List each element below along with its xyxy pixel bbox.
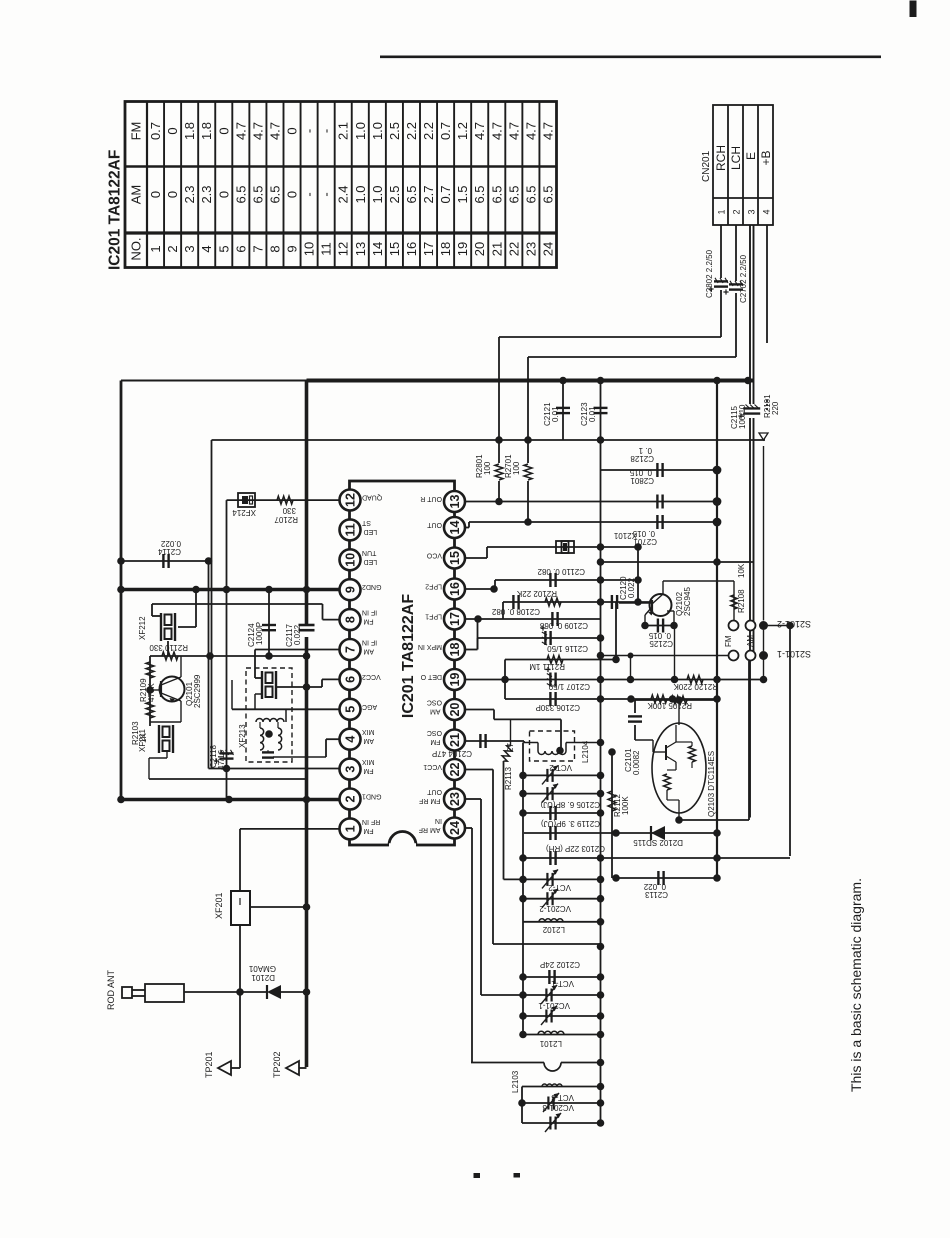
svg-text:AM: AM [363,648,374,655]
svg-text:-: - [319,129,334,133]
svg-text:TP201: TP201 [204,1051,214,1078]
svg-text:0.7: 0.7 [148,122,163,140]
svg-text:2.3: 2.3 [182,185,197,203]
svg-text:6.5: 6.5 [506,185,521,203]
svg-text:12: 12 [344,493,358,507]
svg-text:1.0: 1.0 [370,185,385,203]
svg-text:IC201 TA8122AF: IC201 TA8122AF [400,594,417,718]
svg-text:24: 24 [448,821,462,835]
svg-text:FM: FM [363,767,373,774]
svg-text:330: 330 [282,506,296,515]
svg-text:C2114: C2114 [157,547,181,556]
svg-text:R2107: R2107 [274,515,298,524]
svg-text:2: 2 [165,245,180,252]
svg-text:6.5: 6.5 [472,185,487,203]
svg-text:AM: AM [129,185,144,205]
svg-text:OSC: OSC [427,729,442,736]
svg-text:2.1: 2.1 [336,122,351,140]
svg-text:R2102 22K: R2102 22K [516,589,557,598]
svg-text:1.0: 1.0 [353,185,368,203]
svg-text:0.7: 0.7 [438,122,453,140]
svg-text:4: 4 [762,209,772,214]
svg-text:4.7: 4.7 [489,122,504,140]
svg-text:LED: LED [364,558,378,565]
svg-text:FM RF: FM RF [419,797,440,804]
svg-text:GMA01: GMA01 [248,964,276,973]
svg-text:6.5: 6.5 [233,185,248,203]
svg-text:5: 5 [216,245,231,252]
svg-text:C2113: C2113 [644,890,668,899]
svg-text:15: 15 [448,551,462,565]
svg-text:6: 6 [344,676,358,683]
svg-text:22: 22 [448,763,462,777]
svg-text:Q2103 DTC114ES: Q2103 DTC114ES [707,751,716,817]
svg-text:2SC945: 2SC945 [683,587,692,616]
svg-text:XF212: XF212 [138,616,147,640]
svg-text:R2120 220K: R2120 220K [673,682,718,691]
svg-text:0: 0 [285,127,300,134]
svg-text:ROD ANT: ROD ANT [106,969,116,1010]
svg-text:FM: FM [363,827,373,834]
svg-text:1.2: 1.2 [455,122,470,140]
svg-text:2SC2999: 2SC2999 [193,674,202,708]
svg-text:15: 15 [387,242,402,256]
svg-text:LED: LED [364,528,378,535]
svg-text:13: 13 [353,242,368,256]
svg-text:C2104 47P: C2104 47P [432,749,472,758]
svg-text:4.7: 4.7 [250,122,265,140]
svg-text:OUT: OUT [427,788,443,795]
svg-text:16: 16 [404,242,419,256]
svg-text:0. 015: 0. 015 [629,468,652,477]
svg-text:FM: FM [363,618,373,625]
svg-text:RF IN: RF IN [362,818,380,825]
svg-text:6.5: 6.5 [489,185,504,203]
svg-text:TP202: TP202 [272,1051,282,1078]
svg-text:VCT-1: VCT-1 [551,979,574,988]
svg-text:MIX: MIX [362,758,375,765]
svg-text:2.4: 2.4 [336,185,351,203]
svg-text:4: 4 [344,736,358,743]
svg-text:TUN: TUN [362,549,376,556]
svg-text:C2109 0. 068: C2109 0. 068 [539,621,588,630]
svg-text:D2102 SD115: D2102 SD115 [633,838,683,847]
svg-text:100: 100 [512,461,521,475]
svg-text:-: - [302,129,317,133]
svg-text:100K: 100K [621,796,630,815]
svg-text:2.3: 2.3 [199,185,214,203]
svg-text:C2106 330P: C2106 330P [536,703,580,712]
svg-text:CN201: CN201 [701,150,712,182]
svg-text:0. 015: 0. 015 [648,631,671,640]
svg-text:DET O: DET O [420,673,442,680]
svg-text:0.022: 0.022 [160,539,181,548]
svg-text:2.2: 2.2 [404,122,419,140]
svg-text:2.5: 2.5 [387,122,402,140]
svg-text:3: 3 [182,245,197,252]
svg-text:19: 19 [448,673,462,687]
svg-text:L2102: L2102 [542,925,565,934]
svg-text:OUT R: OUT R [420,495,442,502]
svg-text:12: 12 [336,242,351,256]
svg-text:23: 23 [523,242,538,256]
svg-text:7: 7 [250,245,265,252]
svg-text:10: 10 [302,242,317,256]
svg-text:XF213: XF213 [238,724,247,748]
svg-text:VC201-1: VC201-1 [538,1001,570,1010]
svg-text:AM: AM [363,737,374,744]
svg-text:47/16: 47/16 [217,749,226,770]
svg-text:IC201 TA8122AF: IC201 TA8122AF [107,150,124,270]
svg-text:9: 9 [344,586,358,593]
svg-text:S2101-1: S2101-1 [777,649,811,659]
svg-text:IF IN: IF IN [362,639,377,646]
svg-text:MPX IN: MPX IN [418,643,442,650]
svg-text:2.2: 2.2 [421,122,436,140]
svg-text:GND2: GND2 [362,583,382,590]
svg-text:2.5: 2.5 [387,185,402,203]
svg-text:XF201: XF201 [214,892,224,919]
svg-text:6: 6 [233,245,248,252]
svg-text:6.5: 6.5 [540,185,555,203]
svg-text:C2105 6. 8P(UJ): C2105 6. 8P(UJ) [540,800,600,809]
svg-text:IN: IN [435,817,442,824]
svg-text:6.5: 6.5 [523,185,538,203]
svg-text:This is a basic schematic diag: This is a basic schematic diagram. [848,878,864,1092]
svg-text:10: 10 [344,553,358,567]
svg-text:D2101: D2101 [251,973,275,982]
svg-text:R2108: R2108 [737,589,746,613]
svg-text:14: 14 [448,521,462,535]
svg-text:IF IN: IF IN [362,609,377,616]
svg-text:1: 1 [717,209,727,214]
svg-text:+B: +B [759,150,773,165]
svg-text:8: 8 [267,245,282,252]
svg-text:21: 21 [448,733,462,747]
svg-text:FM: FM [430,738,440,745]
svg-text:19: 19 [455,242,470,256]
svg-text:XF214: XF214 [232,508,256,517]
svg-text:20: 20 [472,242,487,256]
svg-text:13: 13 [448,495,462,509]
svg-text:RCH: RCH [714,145,728,171]
svg-text:AM RF: AM RF [419,826,441,833]
svg-text:4.7: 4.7 [233,122,248,140]
svg-text:VC201-2: VC201-2 [539,904,571,913]
svg-text:GND1: GND1 [362,793,382,800]
svg-text:4: 4 [199,245,214,252]
svg-text:L2101: L2101 [539,1039,562,1048]
svg-text:LPF1: LPF1 [425,613,442,620]
svg-text:R2105 100K: R2105 100K [647,701,692,710]
svg-text:C2801: C2801 [630,476,654,485]
svg-text:10K: 10K [737,563,746,578]
svg-text:C2125: C2125 [649,639,673,648]
svg-text:0: 0 [148,191,163,198]
svg-text:18: 18 [448,643,462,657]
svg-text:LPF2: LPF2 [425,583,442,590]
svg-text:C2802 2.2/50: C2802 2.2/50 [705,249,714,298]
svg-text:27: 27 [506,743,515,752]
svg-text:X2101: X2101 [613,531,637,540]
svg-text:C2119 3. 9P(UJ): C2119 3. 9P(UJ) [541,819,600,828]
svg-text:2: 2 [344,795,358,802]
svg-text:0: 0 [216,127,231,134]
svg-text:22: 22 [506,242,521,256]
svg-text:4.7: 4.7 [540,122,555,140]
svg-text:11: 11 [319,242,334,256]
svg-text:AGC: AGC [362,703,377,710]
svg-text:0: 0 [285,191,300,198]
svg-text:VCC1: VCC1 [423,763,442,770]
svg-text:XF211: XF211 [138,728,147,752]
svg-text:VCC2: VCC2 [362,673,381,680]
svg-text:100/10: 100/10 [738,404,747,429]
svg-text:VCO: VCO [426,552,442,559]
svg-text:6.5: 6.5 [267,185,282,203]
svg-text:ST: ST [361,519,371,526]
svg-text:4.7: 4.7 [523,122,538,140]
svg-text:C2103 22P (RH): C2103 22P (RH) [546,844,605,853]
svg-text:1.5: 1.5 [455,185,470,203]
svg-text:8: 8 [344,616,358,623]
svg-text:LCH: LCH [729,146,743,170]
svg-text:AM: AM [430,708,441,715]
svg-text:OUT: OUT [427,521,443,528]
svg-text:L2104: L2104 [581,740,590,763]
svg-text:QUAD: QUAD [362,494,382,501]
svg-text:7: 7 [344,646,358,653]
svg-text:1.0: 1.0 [353,122,368,140]
svg-text:0.01: 0.01 [588,406,597,422]
svg-text:14: 14 [370,242,385,256]
svg-text:C2110 0. 082: C2110 0. 082 [537,567,585,576]
svg-text:C2702 2.2/50: C2702 2.2/50 [739,254,748,303]
svg-text:VCT-2: VCT-2 [548,883,571,892]
svg-text:23: 23 [448,792,462,806]
svg-text:1.0: 1.0 [370,122,385,140]
svg-text:16: 16 [448,582,462,596]
svg-text:E: E [744,152,758,160]
svg-text:1.8: 1.8 [182,122,197,140]
svg-text:11: 11 [344,523,358,536]
svg-text:0: 0 [165,127,180,134]
svg-text:0.022: 0.022 [627,577,636,598]
svg-text:5: 5 [344,706,358,713]
svg-text:0: 0 [216,191,231,198]
svg-text:3: 3 [344,766,358,773]
svg-text:17: 17 [421,242,436,256]
svg-text:C2102 24P: C2102 24P [540,960,580,969]
svg-text:0. 1: 0. 1 [638,446,652,455]
svg-text:0. 022: 0. 022 [643,882,666,891]
svg-text:4.7: 4.7 [472,122,487,140]
svg-text:24: 24 [540,242,555,256]
svg-text:S2101-2: S2101-2 [777,619,811,629]
svg-text:OSC: OSC [427,699,442,706]
svg-text:20: 20 [448,703,462,717]
svg-text:1000P: 1000P [255,622,264,645]
svg-text:3: 3 [747,209,757,214]
svg-text:4.7: 4.7 [267,122,282,140]
svg-text:C2116 1/50: C2116 1/50 [547,644,588,653]
svg-text:0: 0 [165,191,180,198]
svg-text:0.01: 0.01 [551,406,560,422]
svg-text:C2108 0. 082: C2108 0. 082 [491,607,540,616]
svg-text:NO.: NO. [129,237,144,260]
svg-text:21: 21 [489,242,504,256]
svg-text:6.5: 6.5 [404,185,419,203]
svg-text:2.7: 2.7 [421,185,436,203]
svg-text:0.7: 0.7 [438,185,453,203]
svg-text:100: 100 [483,461,492,475]
svg-text:9: 9 [285,245,300,252]
svg-text:C2107 1/50: C2107 1/50 [548,682,590,691]
svg-text:1: 1 [344,825,358,832]
svg-text:4.7: 4.7 [506,122,521,140]
svg-text:0.022: 0.022 [293,624,302,645]
svg-text:-: - [319,192,334,196]
svg-text:FM: FM [129,122,144,141]
svg-text:1: 1 [148,245,163,252]
svg-text:220: 220 [771,401,780,415]
svg-text:6.5: 6.5 [250,185,265,203]
svg-text:R2110 330: R2110 330 [149,643,188,652]
svg-text:1.8: 1.8 [199,122,214,140]
svg-text:MIX: MIX [362,728,375,735]
svg-text:VCT-2: VCT-2 [549,763,572,772]
svg-text:FM: FM [724,635,733,647]
svg-text:0.0082: 0.0082 [632,750,641,775]
svg-text:VCT-3: VCT-3 [551,1093,574,1102]
svg-text:-: - [302,192,317,196]
svg-text:17: 17 [448,612,462,626]
svg-text:L2103: L2103 [511,1070,520,1093]
svg-text:2: 2 [732,209,742,214]
svg-text:18: 18 [438,242,453,256]
svg-text:C2128: C2128 [630,454,654,463]
svg-text:R2113: R2113 [504,766,513,790]
svg-text:AM: AM [746,635,755,647]
svg-text:VC201-3: VC201-3 [542,1103,574,1112]
